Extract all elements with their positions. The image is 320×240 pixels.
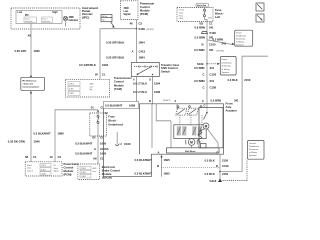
svg-text:0.35 DK GRN: 0.35 DK GRN — [8, 140, 25, 144]
svg-text:C2: C2 — [58, 155, 62, 159]
svg-text:0.5 BRN: 0.5 BRN — [194, 79, 205, 83]
svg-text:1695: 1695 — [164, 158, 171, 162]
svg-text:Transmission: Transmission — [114, 76, 132, 80]
svg-text:C103: C103 — [124, 142, 131, 146]
svg-text:Axle: Axle — [226, 105, 232, 109]
svg-text:0.8 BRN: 0.8 BRN — [195, 25, 206, 29]
svg-text:Class 2: Class 2 — [25, 19, 30, 21]
svg-text:Module: Module — [114, 83, 124, 87]
svg-text:A: A — [158, 151, 160, 155]
svg-text:4WD: 4WD — [93, 168, 98, 170]
svg-text:A: A — [132, 50, 134, 54]
svg-text:C: C — [203, 73, 205, 77]
svg-text:0.35 GRY: 0.35 GRY — [15, 49, 27, 53]
svg-text:Shift Motor: Shift Motor — [185, 150, 196, 153]
svg-text:High: High — [53, 12, 59, 14]
svg-text:1694: 1694 — [102, 63, 109, 67]
svg-text:E: E — [217, 151, 219, 155]
svg-text:IPC: IPC — [25, 15, 29, 17]
svg-text:Low: Low — [124, 11, 129, 13]
svg-text:0.5 BLK: 0.5 BLK — [205, 172, 215, 176]
svg-text:C2: C2 — [139, 22, 143, 26]
svg-text:Indicator: Indicator — [69, 19, 79, 22]
svg-text:M: M — [190, 140, 193, 144]
svg-text:1294: 1294 — [154, 82, 161, 86]
svg-text:1296: 1296 — [154, 90, 161, 94]
svg-text:B: B — [149, 99, 151, 103]
svg-text:0.35 GRY/BLK: 0.35 GRY/BLK — [106, 41, 124, 45]
svg-text:Block -: Block - — [108, 119, 117, 123]
svg-text:Power: Power — [236, 32, 242, 34]
svg-text:1686: 1686 — [58, 131, 65, 135]
svg-text:241: 241 — [209, 25, 214, 29]
svg-text:Transfer Case: Transfer Case — [161, 63, 180, 67]
svg-text:1684: 1684 — [139, 56, 146, 60]
svg-text:2150: 2150 — [222, 172, 229, 176]
svg-text:(PCM): (PCM) — [64, 173, 72, 177]
svg-text:4WD: 4WD — [124, 7, 129, 10]
svg-text:Control: Control — [140, 5, 150, 9]
svg-text:Actuator: Actuator — [226, 109, 238, 113]
svg-text:1046: 1046 — [34, 140, 41, 144]
svg-text:Distribution: Distribution — [222, 61, 232, 64]
svg-text:Fuse: Fuse — [179, 15, 183, 17]
svg-text:C: C — [203, 86, 205, 90]
svg-text:341: 341 — [210, 79, 215, 83]
svg-text:D: D — [216, 164, 218, 168]
svg-text:Block -: Block - — [215, 12, 224, 16]
svg-text:1686: 1686 — [129, 104, 136, 108]
svg-text:Trnsfr: Trnsfr — [179, 9, 184, 12]
svg-text:4WD: 4WD — [90, 84, 95, 86]
svg-text:Case: Case — [179, 13, 183, 15]
svg-text:0.5 GRY/BLK: 0.5 GRY/BLK — [79, 63, 96, 67]
svg-text:Class 2: Class 2 — [27, 170, 33, 172]
svg-text:Low: Low — [18, 12, 23, 14]
svg-text:Control: Control — [114, 80, 124, 84]
svg-text:(W/ NP1): (W/ NP1) — [147, 29, 155, 31]
svg-text:(TCM): (TCM) — [114, 87, 122, 91]
svg-text:Module: Module — [64, 169, 74, 173]
svg-text:N: N — [202, 43, 204, 47]
svg-text:1694: 1694 — [139, 41, 146, 45]
svg-text:in Wiring: in Wiring — [222, 69, 230, 71]
svg-text:0.3 BLK/WHT: 0.3 BLK/WHT — [75, 152, 93, 156]
svg-text:Shift Control: Shift Control — [161, 66, 178, 70]
svg-text:W: W — [95, 72, 98, 76]
svg-text:G416: G416 — [210, 179, 217, 183]
svg-text:0.3 BLK/WHT: 0.3 BLK/WHT — [135, 158, 153, 162]
svg-text:Signal: Signal — [54, 171, 60, 173]
svg-text:A: A — [94, 147, 96, 151]
svg-text:- Data Link: - Data Link — [22, 82, 33, 85]
svg-text:0.35 GRY/BLK: 0.35 GRY/BLK — [106, 56, 124, 60]
svg-text:Hot In Run: Hot In Run — [197, 4, 206, 7]
svg-text:0.3 BLK/WHT: 0.3 BLK/WHT — [105, 104, 123, 108]
svg-text:C413: C413 — [139, 50, 146, 54]
svg-text:(W/ AUT): (W/ AUT) — [163, 99, 171, 102]
svg-text:46: 46 — [130, 22, 134, 26]
svg-text:341: 341 — [209, 48, 214, 52]
svg-text:Distribution: Distribution — [236, 34, 246, 37]
svg-text:0.5 BRN: 0.5 BRN — [194, 48, 205, 52]
svg-text:C1: C1 — [102, 72, 106, 76]
svg-text:0.5 BLK: 0.5 BLK — [205, 158, 215, 162]
svg-text:(IPC): (IPC) — [82, 15, 89, 19]
svg-text:CON ID: CON ID — [69, 84, 75, 86]
svg-text:Schematic: Schematic — [249, 148, 258, 151]
svg-text:341: 341 — [210, 66, 215, 70]
svg-text:Distribution: Distribution — [249, 145, 259, 148]
svg-text:19: 19 — [50, 155, 54, 159]
svg-text:Systems: Systems — [236, 43, 244, 46]
svg-text:Fuse: Fuse — [108, 115, 115, 119]
svg-text:CON ID: CON ID — [81, 168, 87, 170]
svg-text:0.5 LT BLU: 0.5 LT BLU — [133, 82, 147, 86]
svg-text:IPC Reference: IPC Reference — [22, 79, 37, 82]
svg-text:in Wiring: in Wiring — [249, 152, 257, 154]
svg-text:C103: C103 — [210, 73, 217, 77]
svg-text:C100A: C100A — [100, 147, 109, 151]
svg-text:Brake Control: Brake Control — [102, 169, 120, 173]
svg-text:Electronic: Electronic — [102, 165, 116, 169]
svg-text:Systems: Systems — [222, 71, 230, 74]
svg-text:0.5 LT BLU: 0.5 LT BLU — [133, 90, 147, 94]
svg-text:Schematic: Schematic — [236, 37, 245, 40]
svg-text:A6: A6 — [28, 34, 32, 38]
svg-text:(W/ NP8): (W/ NP8) — [217, 51, 225, 53]
svg-text:B2: B2 — [200, 21, 204, 25]
svg-text:Sig: Sig — [90, 89, 93, 91]
svg-text:Power: Power — [222, 59, 228, 61]
svg-text:Communications: Communications — [22, 85, 40, 88]
svg-text:M: M — [205, 124, 208, 128]
svg-text:1036: 1036 — [34, 49, 41, 53]
svg-text:Data: Data — [27, 167, 31, 170]
svg-text:Powertrain: Powertrain — [140, 2, 155, 6]
svg-text:B: B — [157, 164, 159, 168]
svg-text:S160: S160 — [139, 27, 146, 31]
svg-text:0.3 BLK/WHT: 0.3 BLK/WHT — [75, 142, 93, 146]
svg-text:C158: C158 — [210, 86, 217, 90]
svg-text:Underhood: Underhood — [108, 123, 123, 127]
svg-text:C100: C100 — [209, 43, 216, 47]
svg-text:Left: Left — [215, 15, 220, 19]
svg-text:4WD: 4WD — [69, 16, 74, 19]
svg-text:Schematic: Schematic — [222, 65, 231, 68]
svg-text:0.5 BRN: 0.5 BRN — [194, 66, 205, 70]
svg-text:Signal: Signal — [124, 14, 131, 16]
svg-text:0.3 BLK/WHT: 0.3 BLK/WHT — [33, 131, 51, 135]
svg-text:Control: Control — [64, 166, 74, 170]
svg-text:Fuse: Fuse — [215, 8, 222, 12]
svg-text:Serial: Serial — [54, 168, 59, 170]
svg-text:58: 58 — [25, 155, 29, 159]
svg-text:GM link: GM link — [102, 16, 107, 18]
svg-text:Powertrain: Powertrain — [64, 162, 79, 166]
svg-text:S169: S169 — [197, 62, 204, 66]
svg-text:2150: 2150 — [222, 158, 229, 162]
svg-text:0.5 BRN: 0.5 BRN — [213, 38, 224, 42]
svg-text:1695: 1695 — [164, 171, 171, 175]
svg-text:0.5 BRN: 0.5 BRN — [211, 98, 222, 102]
svg-text:(PCM): (PCM) — [140, 12, 148, 16]
svg-text:C1: C1 — [209, 21, 213, 25]
svg-text:0.3 BLK: 0.3 BLK — [228, 78, 238, 82]
svg-text:Front: Front — [226, 102, 233, 106]
svg-text:0.3 BLK/WHT: 0.3 BLK/WHT — [135, 171, 153, 175]
svg-text:Fig 2: Fig 2 — [102, 20, 106, 22]
svg-text:P100: P100 — [210, 31, 217, 35]
svg-text:Systems: Systems — [249, 154, 257, 157]
svg-text:U: U — [120, 142, 122, 146]
svg-text:Serial: Serial — [27, 165, 32, 167]
svg-text:Module: Module — [140, 9, 150, 13]
svg-text:Class 2: Class 2 — [42, 19, 47, 21]
svg-text:C: C — [202, 99, 204, 103]
svg-text:C310: C310 — [222, 164, 229, 168]
svg-text:CON ID: CON ID — [41, 165, 47, 167]
svg-text:Switch: Switch — [161, 70, 170, 74]
svg-text:0.5 BRN: 0.5 BRN — [195, 36, 206, 40]
svg-text:C1: C1 — [33, 155, 37, 159]
svg-text:2150: 2150 — [244, 78, 251, 82]
svg-text:A8: A8 — [93, 157, 97, 161]
svg-text:Ground: Ground — [249, 143, 256, 145]
svg-text:in Wiring: in Wiring — [236, 41, 244, 43]
svg-text:241: 241 — [222, 42, 227, 46]
svg-text:341: 341 — [234, 98, 239, 102]
